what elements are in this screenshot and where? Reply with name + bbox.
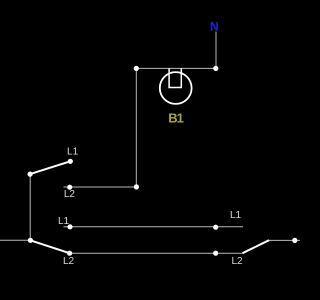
svg-text:B1: B1 [168, 111, 183, 126]
svg-text:L1: L1 [67, 147, 79, 158]
node L1 upper terminal [68, 159, 73, 164]
node L1 lower terminal [67, 224, 72, 229]
svg-text:L1: L1 [230, 210, 242, 221]
wire left entry [0, 239, 30, 241]
wire lamp top horizontal [136, 67, 216, 69]
svg-text:L2: L2 [231, 256, 243, 267]
lamp B1 [160, 68, 192, 103]
wire switch common vertical [29, 174, 31, 240]
node right common [292, 238, 297, 243]
node right L2 contact [213, 251, 218, 256]
node switch pivot [28, 172, 33, 177]
wire N drop [215, 32, 217, 69]
wire L1 lower horizontal [64, 226, 244, 228]
node lamp wire left [134, 66, 139, 71]
switch S2 blade [30, 240, 69, 253]
wire L2 lower horizontal [70, 252, 243, 254]
switch S1 blade [30, 161, 70, 174]
node left junction [28, 238, 33, 243]
wire lamp feed vertical [135, 68, 137, 187]
svg-text:L2: L2 [63, 256, 75, 267]
node right L1 contact [213, 225, 218, 230]
node L2 upper terminal [67, 185, 72, 190]
node N junction [213, 66, 218, 71]
svg-text:N: N [210, 19, 219, 33]
node L2 lower terminal [67, 251, 72, 256]
node lamp feed corner [134, 184, 139, 189]
switch S3 blade [243, 240, 270, 253]
svg-text:L1: L1 [58, 216, 70, 227]
wire L2 upper horizontal [64, 186, 137, 188]
wire right common [269, 239, 300, 241]
svg-text:L2: L2 [64, 189, 76, 200]
